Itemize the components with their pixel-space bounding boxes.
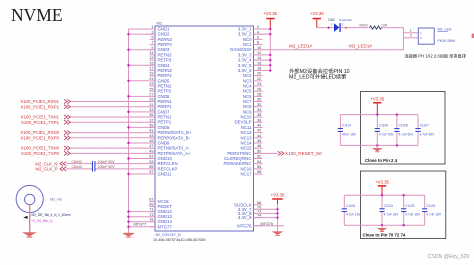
svg-text:4.7uF 50V: 4.7uF 50V	[420, 132, 436, 136]
GND bus vertical wire (left)	[128, 29, 130, 234]
off-page connector chevron X100_PCIE1_RXN1	[64, 99, 70, 103]
svg-text:GND11: GND11	[158, 172, 173, 177]
pin name labels right column	[223, 27, 252, 229]
svg-text:4.7uF 16V: 4.7uF 16V	[346, 213, 362, 217]
svg-text:5: 5	[151, 35, 153, 39]
svg-text:C1114: C1114	[342, 124, 351, 128]
svg-text:X100_PCIE1_RXP1: X100_PCIE1_RXP1	[21, 104, 60, 109]
off-page connector chevron X100_PCIE1_TXN1	[64, 115, 70, 119]
off-page connector chevron M2_CLK_N	[60, 162, 66, 166]
svg-text:8: 8	[257, 41, 259, 45]
svg-text:37: 37	[149, 118, 153, 122]
power symbol +V3.35 (box 1)	[370, 96, 384, 114]
capacitor C8442 100nF 50V	[72, 160, 116, 166]
capacitor C1103 4.7uF 16V	[401, 195, 421, 225]
mounting hole inner ring	[25, 194, 35, 204]
ground symbol mounting hole	[23, 233, 35, 238]
pin stubs right side	[254, 29, 263, 226]
svg-text:+2_H6_65k_u): +2_H6_65k_u)	[32, 219, 53, 223]
svg-text:15: 15	[149, 61, 153, 65]
pin name labels left column	[158, 27, 192, 230]
wire net X100_PCIE1_TXN0	[71, 147, 156, 149]
off-page connector chevron M2_CLK_P	[60, 167, 66, 171]
svg-text:20: 20	[257, 72, 261, 76]
svg-text:17: 17	[149, 67, 153, 71]
svg-text:21: 21	[149, 77, 153, 81]
svg-text:42: 42	[257, 129, 261, 133]
wire top rail box1	[340, 114, 418, 116]
junction dots box2	[381, 194, 405, 226]
svg-text:23: 23	[149, 82, 153, 86]
svg-text:36: 36	[257, 113, 261, 117]
wire net X100_PCIE1_TXP0	[71, 152, 156, 154]
3.3V bus vertical (bottom right)	[277, 204, 279, 232]
3.3V pin wires to bus	[254, 29, 271, 70]
svg-text:10: 10	[257, 46, 261, 50]
svg-text:3: 3	[151, 30, 153, 34]
edge mark right	[472, 34, 474, 39]
wire hole to ground	[29, 205, 31, 234]
wire diode to resistor	[341, 27, 369, 29]
svg-text:19: 19	[149, 72, 153, 76]
svg-text:D62: D62	[328, 18, 334, 22]
svg-text:Close to Pin 70 72 74: Close to Pin 70 72 74	[363, 232, 406, 237]
svg-text:C1103: C1103	[405, 204, 414, 208]
svg-text:+V3.35: +V3.35	[375, 179, 389, 184]
connector U/M2 body (M.2 KEY M socket)	[155, 26, 254, 231]
svg-text:M2_CON KEY_M: M2_CON KEY_M	[156, 233, 181, 237]
off-page connector chevron X100_PCIE1_TXP1	[64, 120, 70, 124]
svg-text:连接器 PH 1X2 2.0间距 单排直排: 连接器 PH 1X2 2.0间距 单排直排	[405, 53, 467, 60]
svg-text:69: 69	[149, 203, 153, 207]
ground symbol bottom right	[272, 232, 282, 236]
wire resistor to connector branch	[382, 27, 404, 29]
svg-text:22: 22	[257, 77, 261, 81]
svg-text:71: 71	[149, 208, 153, 212]
off-page connector chevron X100_PCIE1_TXN0	[64, 146, 70, 150]
svg-text:M2_LED: M2_LED	[438, 28, 452, 32]
connector J1 M2_LED PH 1x2	[410, 28, 455, 45]
svg-text:C1102: C1102	[426, 204, 435, 208]
svg-text:+V3.35: +V3.35	[310, 11, 324, 16]
wire net M2_CLK_N	[66, 163, 92, 165]
power symbol +V3.35 (box 2)	[375, 179, 389, 195]
svg-text:MTG77: MTG77	[134, 223, 147, 227]
svg-text:M2_CLK_P: M2_CLK_P	[36, 166, 58, 171]
svg-text:13: 13	[149, 56, 153, 60]
svg-text:3.3V_9: 3.3V_9	[238, 215, 252, 220]
svg-text:NVME: NVME	[11, 5, 63, 25]
svg-text:9: 9	[151, 46, 153, 50]
svg-text:10R: 10R	[381, 23, 388, 27]
wire net X100_RESET_S0 (pin 50 PERST#)	[254, 152, 278, 154]
svg-text:M2_LED可外接LED续策: M2_LED可外接LED续策	[289, 73, 347, 81]
wire net X100_PCIE1_RXP1	[71, 106, 156, 108]
annotation box Close to Pin 70 72 74	[361, 171, 446, 239]
svg-text:100nF 50V: 100nF 50V	[98, 160, 116, 164]
svg-text:11: 11	[150, 51, 154, 55]
svg-text:29: 29	[149, 98, 153, 102]
svg-text:14: 14	[257, 56, 261, 60]
wire net X100_PCIE1_TXP1	[71, 121, 156, 123]
junction dots on 3.3V bus	[269, 28, 271, 72]
svg-text:+V3.35: +V3.35	[271, 193, 285, 198]
off-page connector chevron X100_PCIE1_RXN0	[64, 131, 70, 135]
svg-text:47: 47	[149, 144, 153, 148]
svg-text:X100_PCIE1_TXP0: X100_PCIE1_TXP0	[21, 151, 60, 156]
svg-text:52: 52	[257, 155, 261, 159]
svg-text:4.7uF 16V: 4.7uF 16V	[405, 213, 421, 217]
svg-text:54: 54	[257, 160, 261, 164]
svg-text:50: 50	[257, 149, 261, 153]
svg-text:100nF 50V: 100nF 50V	[98, 165, 116, 169]
svg-text:MTG76: MTG76	[237, 223, 252, 228]
svg-text:MTG76: MTG76	[261, 222, 274, 226]
svg-text:4.7uF 16V: 4.7uF 16V	[426, 213, 442, 217]
off-page connector chevron X100_PCIE1_RXP0	[64, 136, 70, 140]
svg-text:31: 31	[149, 103, 153, 107]
3.3V bus vertical wire	[269, 29, 271, 70]
svg-text:NotInstall: NotInstall	[339, 18, 352, 22]
ground symbol box1	[373, 145, 382, 152]
power symbol +V3.35 (LED branch)	[310, 11, 324, 28]
svg-text:46: 46	[257, 139, 261, 143]
svg-text:73: 73	[149, 213, 153, 217]
svg-text:34: 34	[257, 108, 261, 112]
svg-text:38: 38	[257, 118, 261, 122]
svg-text:+V3.35: +V3.35	[263, 11, 277, 16]
svg-text:C1104: C1104	[384, 204, 393, 208]
vertical wire at connector	[403, 28, 405, 50]
svg-text:68: 68	[257, 201, 261, 205]
capacitor C1108 4.7uF 50V	[394, 115, 414, 146]
svg-text:C1108: C1108	[399, 124, 408, 128]
svg-text:4.7uF 50V: 4.7uF 50V	[399, 132, 415, 136]
svg-text:10-456-067074&10-456-067069: 10-456-067074&10-456-067069	[153, 238, 206, 242]
svg-text:M2_H6: M2_H6	[50, 197, 62, 201]
svg-text:43: 43	[149, 134, 153, 138]
svg-text:30: 30	[257, 98, 261, 102]
svg-text:27: 27	[149, 92, 153, 96]
svg-text:24: 24	[257, 82, 261, 86]
off-page connector chevron X100_PCIE1_TXP0	[64, 151, 70, 155]
svg-text:45: 45	[149, 139, 153, 143]
cursor arrow	[23, 216, 27, 219]
svg-text:2: 2	[257, 25, 259, 29]
svg-text:R524: R524	[360, 23, 368, 27]
annotation box Close to Pin 2 4	[361, 92, 446, 165]
svg-text:PH2K-SMM: PH2K-SMM	[438, 39, 456, 43]
svg-text:55: 55	[149, 165, 153, 169]
capacitor C8443 100nF 50V	[72, 165, 116, 171]
resistor R524 10R	[360, 23, 388, 29]
wire net M2_CLK_P	[66, 168, 92, 170]
svg-text:M2: M2	[157, 21, 163, 26]
svg-text:58: 58	[257, 170, 261, 174]
wire to connector pin 2	[404, 37, 419, 39]
diode D62 LED (NotInstall)	[328, 18, 352, 32]
wire to connector pin 1	[404, 32, 419, 34]
svg-text:NC17: NC17	[241, 172, 253, 177]
svg-text:26: 26	[257, 87, 261, 91]
svg-text:6: 6	[257, 35, 259, 39]
wire bottom rail box1	[340, 144, 418, 146]
svg-text:C1106: C1106	[346, 204, 355, 208]
svg-text:7: 7	[151, 41, 153, 45]
svg-text:16: 16	[257, 61, 261, 65]
svg-text:12: 12	[257, 51, 261, 55]
svg-text:1: 1	[410, 29, 412, 33]
wire net X100_PCIE1_RXN1	[71, 101, 156, 103]
svg-text:33: 33	[149, 108, 153, 112]
svg-text:2: 2	[410, 34, 412, 38]
capacitor C1104 4.7uF 16V	[379, 195, 399, 225]
ground symbol at bottom of GND bus	[123, 233, 134, 237]
wire net X100_PCIE1_RXN0	[71, 132, 156, 134]
capacitor C1106 4.7uF 16V	[342, 195, 362, 225]
svg-text:4: 4	[257, 30, 259, 34]
svg-text:51: 51	[149, 155, 153, 159]
junction dots box1	[376, 113, 398, 146]
power symbol +V3.35 (pins 70 72 74)	[271, 193, 285, 204]
svg-text:MTG77: MTG77	[158, 224, 173, 229]
wire top rail box2	[344, 194, 424, 196]
capacitor C1102 4.7uF 16V	[422, 195, 442, 225]
svg-text:47uF 16V: 47uF 16V	[342, 132, 357, 136]
svg-text:53: 53	[149, 160, 153, 164]
junction dots on GND bus	[127, 33, 129, 228]
wire net M2_LED1# (pin 10 to connector)	[254, 49, 404, 51]
svg-text:39: 39	[149, 124, 153, 128]
power symbol +V3.35 (top of right bus)	[263, 11, 277, 29]
svg-text:1: 1	[151, 25, 153, 29]
svg-text:X100_PCIE1_TXP1: X100_PCIE1_TXP1	[21, 120, 60, 125]
pin numbers left (odd 1..57, 67..77)	[149, 25, 153, 222]
svg-text:75: 75	[149, 218, 153, 222]
svg-text:67: 67	[149, 198, 153, 202]
svg-text:C1109: C1109	[379, 124, 388, 128]
capacitor C1114 47uF 16V	[338, 115, 357, 146]
svg-text:49: 49	[149, 149, 153, 153]
svg-text:C8443: C8443	[72, 165, 82, 169]
svg-text:CSDN @Hzy_520: CSDN @Hzy_520	[428, 254, 470, 260]
capacitor C1107 4.7uF 50V	[415, 115, 435, 146]
capacitor C1109 4.7uF 50V	[375, 115, 395, 146]
svg-text:28: 28	[257, 92, 261, 96]
junction dots bottom right bus	[276, 208, 278, 219]
ground symbol box2	[377, 225, 386, 232]
svg-text:35: 35	[149, 113, 153, 117]
svg-text:X100_PCIE1_RXP0: X100_PCIE1_RXP0	[21, 135, 60, 140]
mounting hole M2_H6 outer ring	[16, 185, 43, 212]
svg-text:C1107: C1107	[420, 124, 429, 128]
svg-text:44: 44	[257, 134, 261, 138]
GND pin wires to bus	[129, 29, 156, 227]
off-page connector chevron X100_RESET_S0	[278, 151, 284, 155]
svg-text:4.7uF 16V: 4.7uF 16V	[384, 213, 400, 217]
svg-text:X100_RESET_S0: X100_RESET_S0	[285, 151, 322, 156]
pin stubs left side	[150, 29, 156, 227]
svg-text:41: 41	[149, 129, 153, 133]
svg-text:+V3.35: +V3.35	[370, 96, 384, 101]
svg-text:40: 40	[257, 124, 261, 128]
wire net X100_PCIE1_RXP0	[71, 137, 156, 139]
svg-text:M2_LED1#: M2_LED1#	[289, 44, 312, 49]
wire bottom rail box2	[344, 224, 424, 226]
svg-text:57: 57	[149, 170, 153, 174]
svg-text:4.7uF 50V: 4.7uF 50V	[379, 132, 395, 136]
wires pins 70 72 74 to bus	[254, 209, 285, 226]
wire power to diode	[317, 27, 334, 29]
pin numbers right (even 2..58, 68..76)	[257, 25, 261, 218]
svg-text:18: 18	[257, 67, 261, 71]
svg-text:74: 74	[257, 214, 261, 218]
wire net X100_PCIE1_TXN1	[71, 116, 156, 118]
svg-text:C8442: C8442	[72, 160, 82, 164]
svg-text:32: 32	[257, 103, 261, 107]
off-page connector chevron X100_PCIE1_RXP1	[64, 105, 70, 109]
svg-text:25: 25	[149, 87, 153, 91]
svg-text:56: 56	[257, 165, 261, 169]
svg-text:Close to Pin 2 4: Close to Pin 2 4	[365, 158, 398, 163]
svg-text:M2_DR_Tall_4_N_2_60mm: M2_DR_Tall_4_N_2_60mm	[32, 213, 71, 217]
svg-text:48: 48	[257, 144, 261, 148]
svg-text:M2_LED1#: M2_LED1#	[349, 44, 372, 49]
